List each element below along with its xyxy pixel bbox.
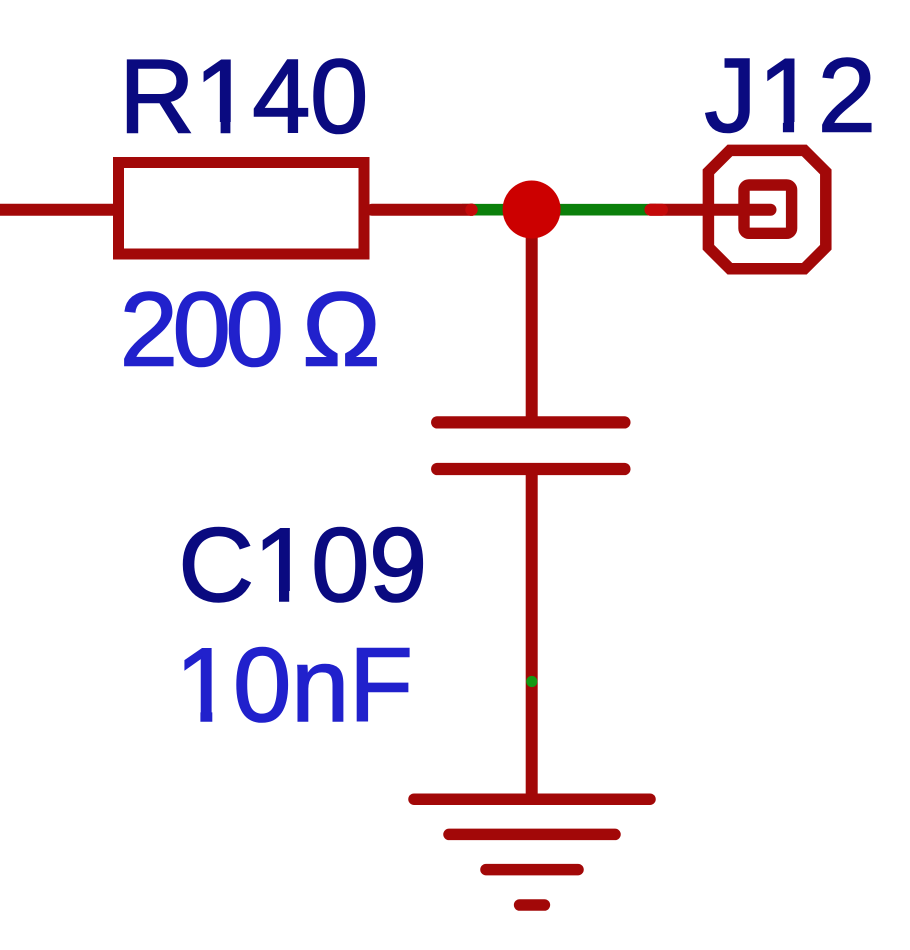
svg-text:200 Ω: 200 Ω xyxy=(120,272,377,389)
svg-text:J12: J12 xyxy=(704,38,877,155)
svg-text:10nF: 10nF xyxy=(175,627,412,744)
svg-text:C109: C109 xyxy=(178,507,427,624)
svg-text:R140: R140 xyxy=(119,38,368,155)
